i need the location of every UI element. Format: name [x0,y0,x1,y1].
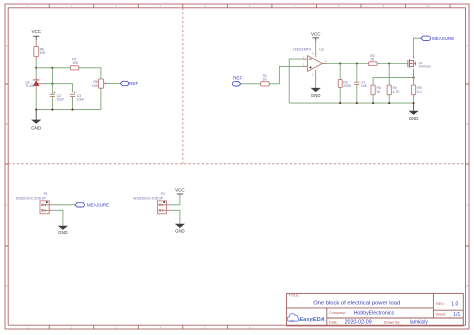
svg-text:GND: GND [175,228,185,233]
capacitor C3 10uF [70,91,84,101]
wire TL431 ref to C3 top [44,84,73,93]
svg-text:A: A [466,44,468,48]
svg-text:10K: 10K [40,51,47,55]
svg-text:GND: GND [409,116,419,121]
wire R2 to gate [377,63,408,65]
left row ticks [5,84,8,246]
node K junction [35,67,37,69]
junction R3 top [339,62,341,64]
wire source node [373,78,414,86]
resistor R2 1K [369,54,378,65]
partition dashed line vertical [182,8,184,164]
svg-text:LM321MFX: LM321MFX [293,47,312,51]
CIRCUIT2 [232,31,454,121]
rail junctions [339,102,341,104]
VCC flag (P2) [175,187,185,194]
svg-text:REV:: REV: [436,302,444,306]
wire R8 bottom to GND rail [36,88,101,109]
resistor R3 220K [338,79,352,88]
wire R8 wiper to REF port [108,82,121,84]
bottom rail wire [289,102,413,104]
connector P1 WJ2EDGVC-5.08-2P [16,192,53,214]
svg-text:iamkisly: iamkisly [410,320,429,326]
net port MEASURE (P1) [75,203,109,208]
TL431 U2 [25,80,44,88]
wire node K horizontal [36,67,70,69]
title block outline [287,293,464,326]
svg-text:10: 10 [426,4,430,8]
svg-text:WJ2EDGVC-5.08-2P: WJ2EDGVC-5.08-2P [16,196,46,200]
svg-text:TL431: TL431 [25,84,35,88]
svg-text:MEASURE: MEASURE [87,203,109,208]
wire drain to MEASURE [413,54,415,58]
svg-text:1K: 1K [263,78,268,82]
svg-text:10uF: 10uF [57,97,65,101]
svg-text:1K: 1K [370,58,375,62]
wire P1 pin1 to MEASURE [53,204,75,206]
svg-text:REF: REF [129,81,138,86]
svg-text:0.1: 0.1 [417,90,422,94]
svg-text:Company:: Company: [329,311,346,315]
wire TL431 anode down [35,86,37,90]
resistor R7 10K [70,58,79,70]
GND flag (op-amp) [311,88,321,98]
capacitor C2 10uF [50,91,64,101]
svg-text:REF: REF [233,76,242,81]
svg-text:Sheet:: Sheet: [435,313,446,317]
lead op-amp +in [302,65,308,67]
junction C2 top [51,67,53,69]
EasyEDA logo cloud [287,314,299,322]
svg-text:1uF: 1uF [361,84,367,88]
svg-text:VCC: VCC [311,31,321,36]
svg-text:WJ2EDGVC-5.08-2P: WJ2EDGVC-5.08-2P [133,196,163,200]
svg-text:10K: 10K [92,84,99,88]
svg-text:220K: 220K [343,84,352,88]
junction on ref wire [51,83,53,85]
capacitor C1 1uF [354,81,367,89]
VCC flag (circuit 2) [311,31,321,40]
svg-text:One block of electrical power: One block of electrical power load [313,300,400,306]
svg-text:Date:: Date: [329,320,338,324]
wire VCC to R6 [35,40,37,46]
junction C1 top [356,62,358,64]
resistor R9 0.1 (sense) [412,85,423,95]
svg-text:1.0: 1.0 [451,301,458,307]
svg-text:TITLE:: TITLE: [289,294,300,298]
wire C2 vertical [51,68,53,110]
svg-text:1K: 1K [377,90,382,94]
svg-text:EasyEDA: EasyEDA [299,317,324,323]
top column ticks [49,4,450,8]
resistor R6 10K [34,47,47,57]
svg-text:Drawn By:: Drawn By: [384,320,401,324]
wire C3 bottom [72,97,74,110]
wire P2 pin2 to GND [170,210,180,224]
resistor R5 1K [371,85,381,95]
wire REF to R1 [241,83,261,85]
wire op-amp -in to rail [302,58,308,60]
GND rail junctions [35,109,37,111]
GND flag (P1) [58,226,68,236]
lead VCC pin 5 [315,41,317,58]
svg-text:2020-02-09: 2020-02-09 [345,320,372,326]
GND flag (circuit 1) [31,110,42,131]
svg-text:B: B [466,122,468,126]
CONNECTORS [16,187,186,235]
svg-text:HobbyElectronics: HobbyElectronics [354,310,395,316]
op-amp U1 LM321MFX [293,47,327,76]
title block inner lines [287,293,464,326]
VCC flag (circuit 1) [31,29,41,40]
junction gate / R4 [388,62,390,64]
wire R7 to R8 [79,68,101,79]
bottom column ticks [49,325,227,329]
TITLEBLOCK [287,293,464,326]
net port REF (input) [232,76,242,86]
svg-text:GND: GND [311,93,321,98]
net port REF (output) [120,81,138,86]
wire P2 pin1 to VCC [170,194,180,205]
svg-text:IRFP250: IRFP250 [419,64,431,68]
MOSFET Q1 IRFP250 [408,59,431,68]
svg-text:1/1: 1/1 [453,312,460,318]
svg-text:4.7K: 4.7K [393,90,401,94]
svg-text:A: A [6,44,8,48]
resistor R1 1K [261,74,270,86]
resistor R4 4.7K [387,85,400,95]
wire R1 to op-amp +in [269,66,302,83]
potentiometer R8 10K [92,79,108,88]
wire R9 bottom [413,95,415,103]
svg-text:MEASURE: MEASURE [432,36,454,41]
svg-text:GND: GND [58,230,68,235]
svg-text:B: B [6,122,8,126]
wire R5 bottom [372,95,374,103]
svg-text:U1: U1 [319,47,324,51]
wire C1 vertical [356,64,358,104]
GND flag (sense) [409,103,419,121]
junction source node [413,77,415,79]
connector P2 WJ2EDGVC-5.08-2P [133,192,170,214]
wire output to R2 [327,63,369,65]
GND flag (P2) [175,224,185,234]
lead GND pin 3 [315,70,317,88]
lead op-amp output [322,63,326,65]
wire R3 vertical [339,64,341,104]
partition dashed line horizontal [8,163,465,165]
CIRCUIT1 [25,29,138,130]
wire P1 pin2 to GND [53,210,63,225]
svg-text:VCC: VCC [31,29,41,34]
svg-text:10uF: 10uF [77,97,85,101]
wire R4 vertical [388,64,390,104]
wire R6 to node K [35,57,37,61]
svg-text:GND: GND [31,125,42,130]
net port MEASURE (top) [421,36,454,41]
svg-text:10K: 10K [72,61,79,65]
svg-text:VCC: VCC [175,187,185,192]
wire source to R9 [413,69,415,78]
right row ticks [466,84,470,246]
